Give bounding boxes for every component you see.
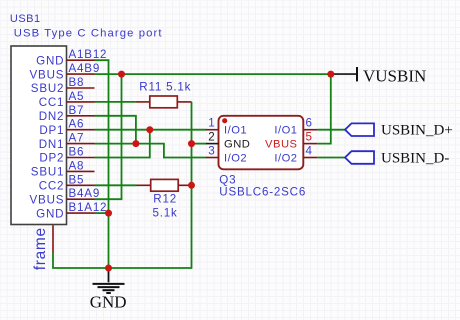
pin frame of USB1 xyxy=(32,225,53,270)
junction DP tie xyxy=(146,126,153,133)
junction GND to IC pin2 xyxy=(188,140,195,147)
junction GND pin B1A12 xyxy=(105,210,112,217)
net flag VUSBIN xyxy=(331,66,426,85)
svg-text:DP2: DP2 xyxy=(39,152,64,165)
svg-text:B6: B6 xyxy=(69,146,85,159)
svg-text:B8: B8 xyxy=(69,76,85,89)
ground symbol GND xyxy=(90,268,127,311)
junction R12 to GND xyxy=(188,182,195,189)
svg-text:DP1: DP1 xyxy=(39,124,64,137)
svg-text:B7: B7 xyxy=(69,104,85,117)
svg-text:A7: A7 xyxy=(69,132,85,145)
junction VUSBIN / IC pin5 xyxy=(327,71,334,78)
svg-text:frame: frame xyxy=(32,227,49,270)
pin A5 (CC1) of USB1 xyxy=(39,90,95,109)
pin A4B9 (VBUS) of USB1 xyxy=(30,62,101,81)
pin B8 (SBU2) of USB1 xyxy=(31,76,95,95)
junction DN tie xyxy=(132,140,139,147)
wire CC2 to R12 xyxy=(95,184,137,186)
svg-text:R12: R12 xyxy=(153,193,177,206)
pin A7 (DN1) of USB1 xyxy=(39,132,95,151)
svg-text:GND: GND xyxy=(36,54,64,67)
svg-text:1: 1 xyxy=(208,117,215,130)
IC Q3 pin 5 stub xyxy=(303,131,317,144)
wire DN1 jog to IC pin3 xyxy=(95,144,207,158)
svg-text:VBUS: VBUS xyxy=(30,193,65,206)
svg-text:GND: GND xyxy=(224,138,250,150)
resistor R11 xyxy=(136,96,192,108)
svg-text:6: 6 xyxy=(306,117,313,130)
junction VBUS tap xyxy=(118,71,125,78)
svg-text:5: 5 xyxy=(306,131,313,144)
net flag USBIN_D+ xyxy=(345,123,453,139)
svg-text:USBIN_D-: USBIN_D- xyxy=(381,150,449,166)
svg-text:VUSBIN: VUSBIN xyxy=(363,66,426,85)
ESD protection IC Q3 body xyxy=(219,116,304,170)
svg-text:SBU2: SBU2 xyxy=(31,82,65,95)
wire DN2 down to DN1 xyxy=(95,116,136,144)
svg-text:I/O1: I/O1 xyxy=(224,125,247,137)
svg-text:DN2: DN2 xyxy=(39,110,65,123)
wire IC pin6 to USBIN_D+ flag xyxy=(317,129,345,131)
IC Q3 pin 4 stub xyxy=(303,145,317,158)
pin B5 (CC2) of USB1 xyxy=(39,173,95,192)
svg-text:A6: A6 xyxy=(69,118,85,131)
IC Q3 pin 3 stub xyxy=(206,145,219,158)
pin A8 (SBU1) of USB1 xyxy=(31,159,95,178)
pin B4A9 (VBUS) of USB1 xyxy=(30,187,101,206)
svg-text:2: 2 xyxy=(208,131,215,144)
svg-text:VBUS: VBUS xyxy=(265,138,297,150)
pin B1A12 (GND) of USB1 xyxy=(36,201,107,220)
connector USB1 body xyxy=(11,46,67,225)
svg-text:DN1: DN1 xyxy=(39,138,65,151)
svg-text:GND: GND xyxy=(36,207,64,220)
wire VBUS pin2 to VUSBIN junction xyxy=(95,73,331,75)
wire CC1 to R11 xyxy=(95,101,136,103)
wire IC pin5 up to VUSBIN xyxy=(317,74,330,144)
svg-text:A5: A5 xyxy=(69,90,85,103)
wire IC pin4 to USBIN_D- flag xyxy=(317,157,345,159)
resistor R12 xyxy=(137,179,192,191)
svg-text:B5: B5 xyxy=(69,173,85,186)
svg-text:I/O2: I/O2 xyxy=(274,152,297,164)
svg-text:A4B9: A4B9 xyxy=(69,62,101,75)
svg-text:B1A12: B1A12 xyxy=(69,201,108,214)
net flag USBIN_D- xyxy=(345,150,449,166)
pin B6 (DP2) of USB1 xyxy=(39,146,94,165)
wire GND to IC pin2 xyxy=(192,143,207,145)
IC Q3 pin 6 stub xyxy=(303,117,317,130)
wire R11 to GND rail vertical xyxy=(53,102,192,268)
svg-text:VBUS: VBUS xyxy=(30,68,65,81)
pin A1B12 (GND) of USB1 xyxy=(36,48,107,67)
IC Q3 pin 1 stub xyxy=(206,117,219,130)
wire VBUS vertical to pin B4A9 xyxy=(95,74,122,199)
svg-text:CC2: CC2 xyxy=(39,180,65,193)
junction GND rail / symbol xyxy=(105,265,112,272)
wire GND pin1 to vertical xyxy=(95,60,109,268)
wire GND pin B1A12 to vertical xyxy=(95,212,109,214)
svg-text:B4A9: B4A9 xyxy=(69,187,101,200)
svg-text:USBLC6-2SC6: USBLC6-2SC6 xyxy=(219,186,306,199)
svg-text:USB Type C Charge port: USB Type C Charge port xyxy=(14,27,163,39)
svg-text:USBIN_D+: USBIN_D+ xyxy=(381,123,453,139)
wire DP1 down to DP2 xyxy=(95,130,150,158)
svg-text:5.1k: 5.1k xyxy=(153,207,178,220)
svg-text:A1B12: A1B12 xyxy=(69,48,108,61)
pin A6 (DP1) of USB1 xyxy=(39,118,94,137)
svg-text:R11 5.1k: R11 5.1k xyxy=(139,81,191,94)
svg-text:I/O1: I/O1 xyxy=(274,125,297,137)
IC Q3 pin 2 stub xyxy=(206,131,219,144)
svg-text:USB1: USB1 xyxy=(10,13,41,25)
svg-text:CC1: CC1 xyxy=(39,96,65,109)
svg-text:4: 4 xyxy=(306,145,313,158)
svg-text:GND: GND xyxy=(90,292,127,311)
svg-text:I/O2: I/O2 xyxy=(224,152,247,164)
pin B7 (DN2) of USB1 xyxy=(39,104,95,123)
svg-text:SBU1: SBU1 xyxy=(31,166,65,179)
wire DP1 to IC pin1 xyxy=(95,129,207,131)
svg-text:A8: A8 xyxy=(69,159,85,172)
svg-text:3: 3 xyxy=(208,145,215,158)
